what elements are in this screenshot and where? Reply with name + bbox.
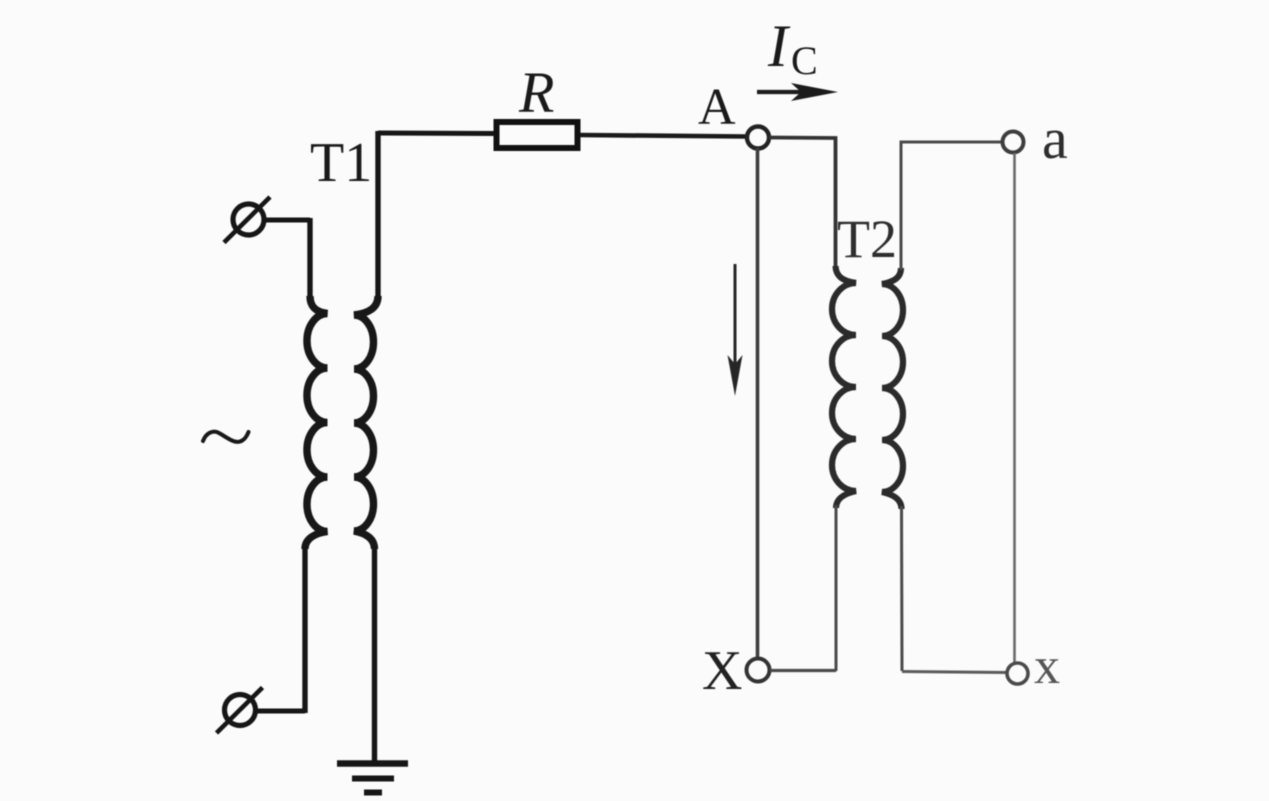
wire: node A to T2 primary lead: [769, 138, 836, 271]
node X: [747, 659, 770, 682]
transformer T2 secondary winding: [882, 268, 903, 671]
wire: resistor to node A: [580, 135, 747, 137]
terminal a: [1003, 132, 1024, 153]
wire: node X to T2 primary bottom: [770, 669, 836, 672]
transformer T1 secondary winding: [354, 131, 378, 762]
label I_C: [767, 13, 818, 83]
terminal x: [1007, 663, 1028, 684]
wire: T1 secondary to resistor: [378, 131, 494, 137]
transformer T1 primary winding: [305, 218, 328, 713]
svg-text:a: a: [1042, 106, 1068, 171]
wire: T2 secondary bottom to terminal x: [902, 672, 1007, 673]
current arrow (vertical, downward): [728, 264, 743, 396]
wire: T2 secondary top to terminal a: [901, 142, 1002, 270]
AC input terminal (top-left): [224, 197, 270, 243]
ground: [337, 764, 408, 793]
svg-text:R: R: [518, 60, 554, 125]
svg-text:X: X: [702, 640, 742, 702]
svg-text:A: A: [698, 79, 736, 136]
wire: top terminal to T1 primary lead: [264, 218, 310, 223]
AC source tilde symbol: [203, 432, 249, 442]
svg-text:I: I: [767, 13, 791, 79]
wire: bottom terminal to T1 primary lead: [256, 709, 305, 714]
node A: [747, 127, 769, 149]
svg-text:C: C: [791, 38, 818, 83]
wire: node A down to node X: [756, 148, 760, 659]
current arrow Ic (horizontal, rightward): [757, 83, 838, 101]
resistor R: [497, 122, 578, 148]
transformer T2 primary winding: [832, 266, 856, 671]
wire: terminal a down to terminal x: [1013, 153, 1016, 663]
svg-text:x: x: [1034, 638, 1060, 695]
svg-text:T2: T2: [837, 209, 897, 269]
AC input terminal (bottom-left): [217, 688, 263, 734]
svg-text:T1: T1: [310, 132, 372, 194]
